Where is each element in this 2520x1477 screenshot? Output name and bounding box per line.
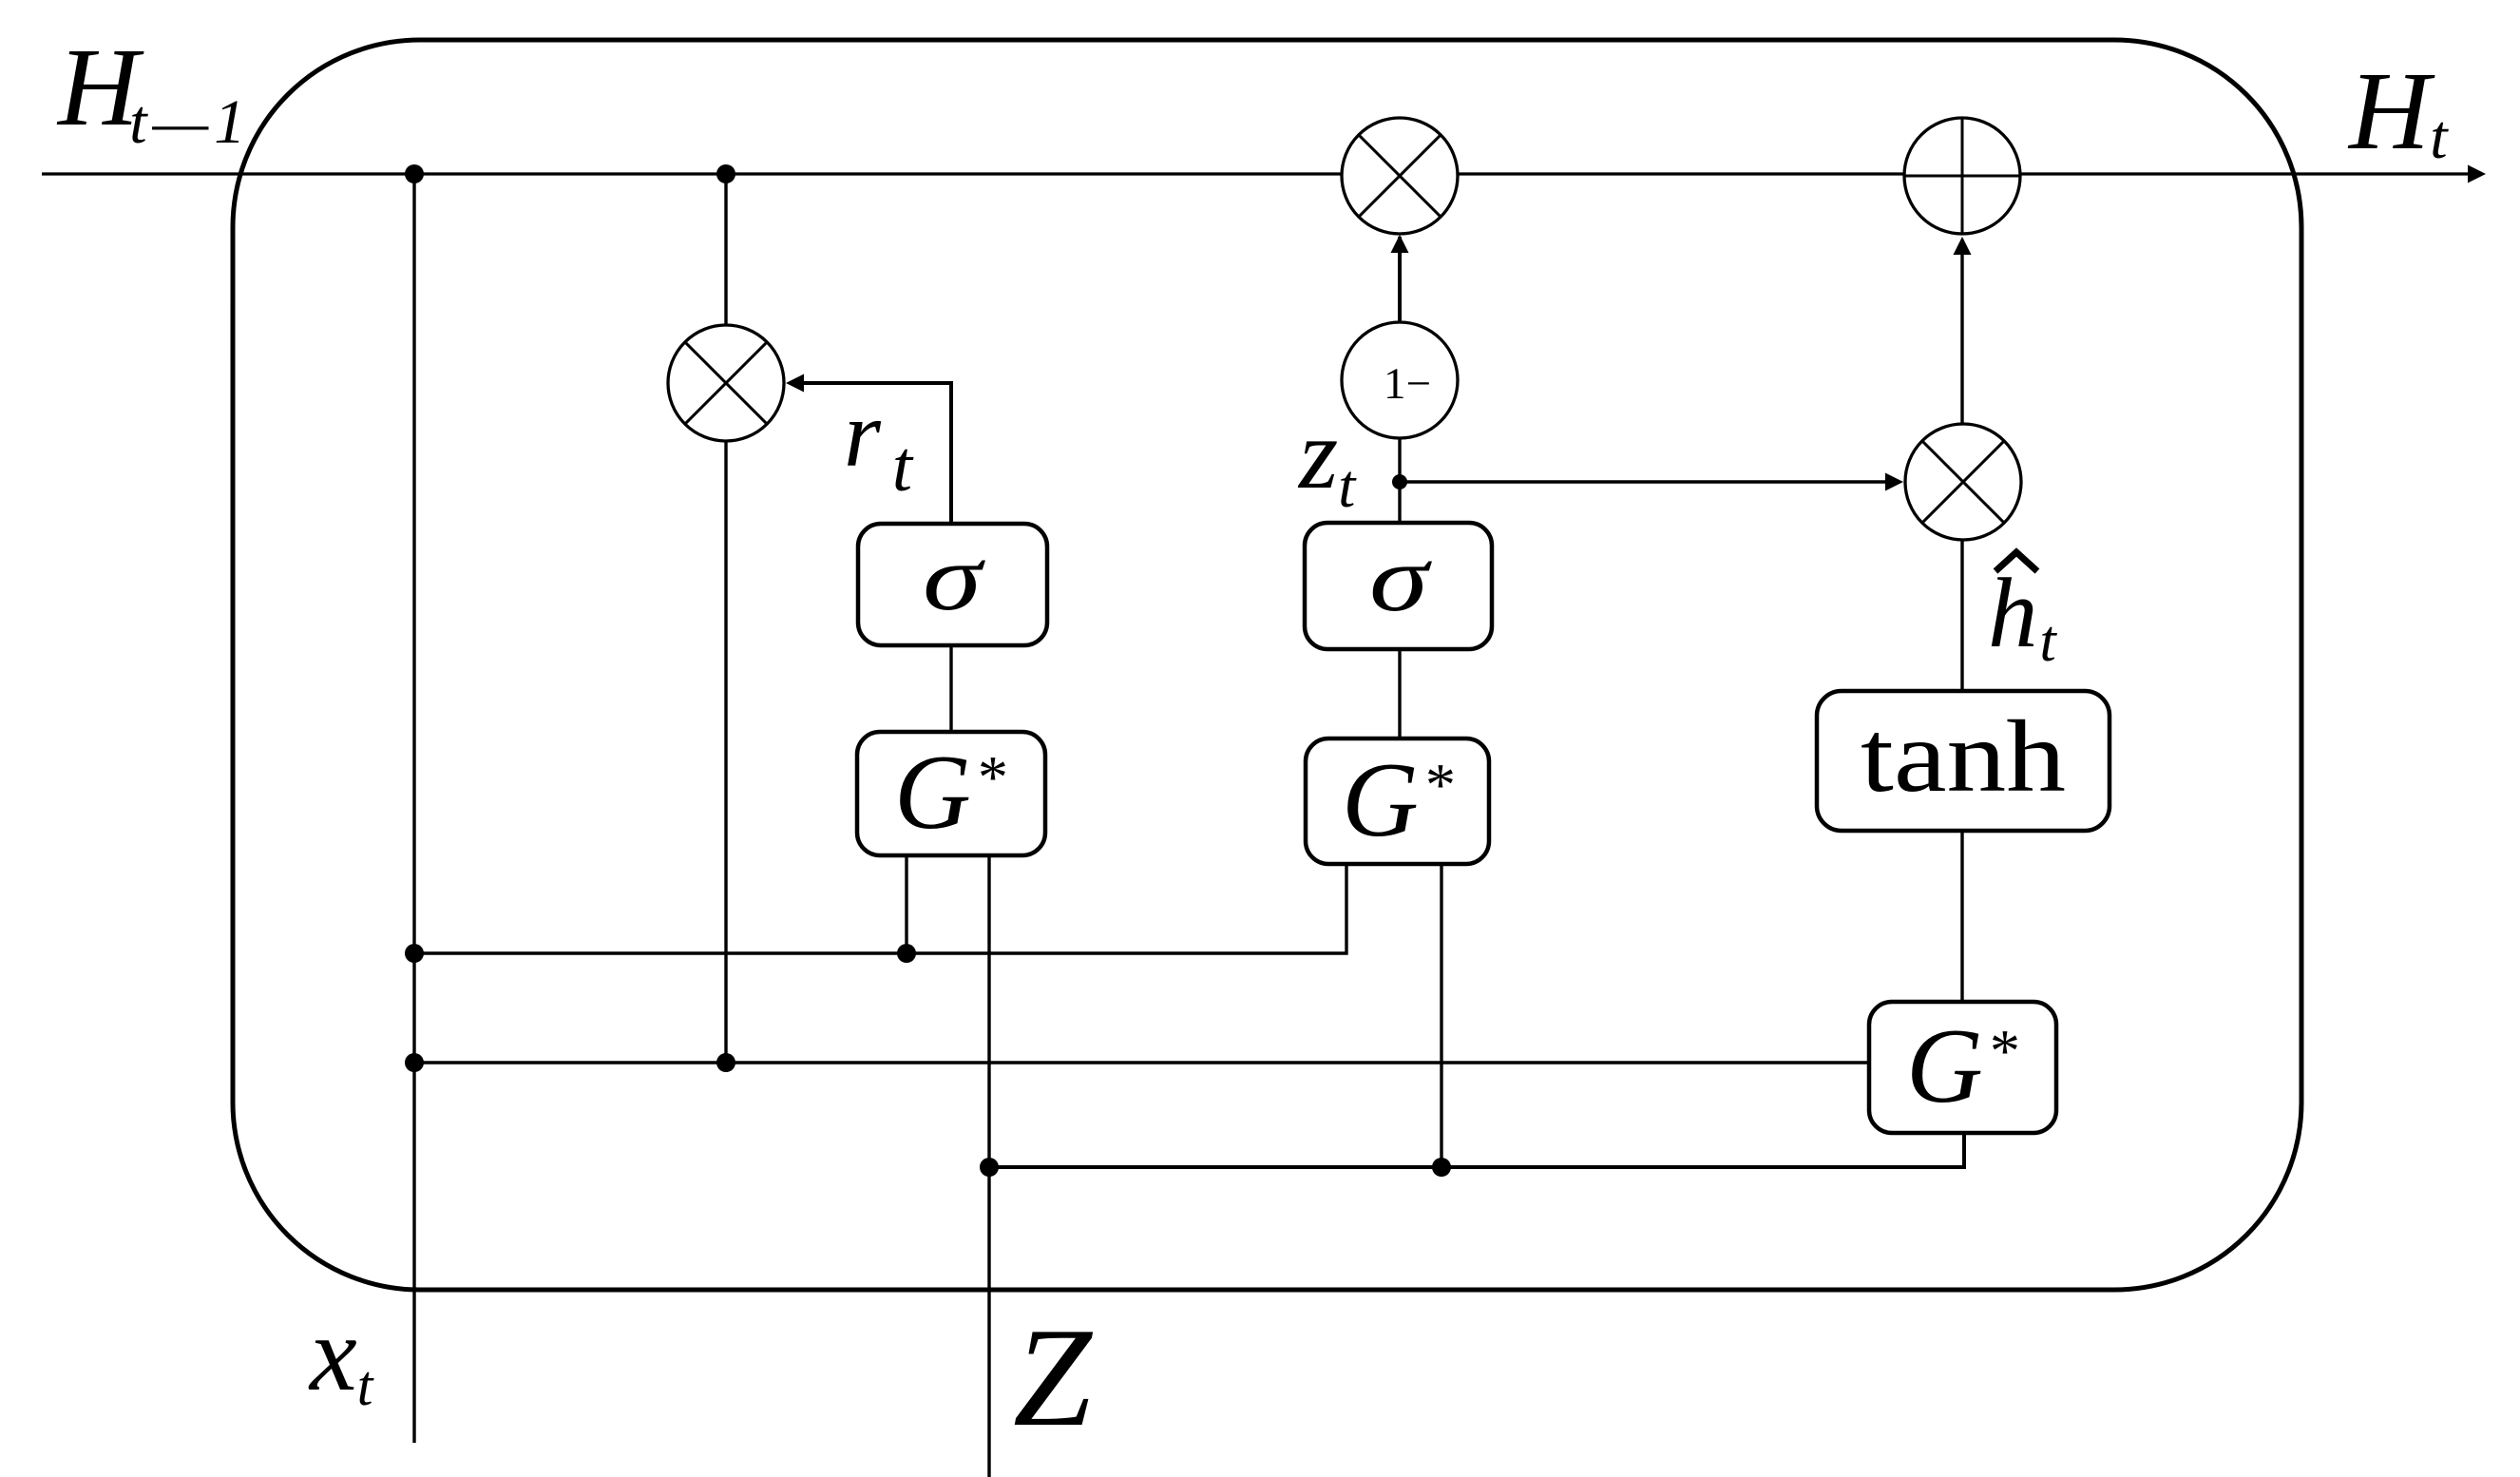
svg-text:1−: 1− xyxy=(1384,359,1431,409)
svg-text:σ: σ xyxy=(923,525,986,630)
svg-text:Z: Z xyxy=(1013,1299,1094,1456)
svg-text:σ: σ xyxy=(1369,526,1433,631)
svg-text:tanh: tanh xyxy=(1861,700,2066,814)
